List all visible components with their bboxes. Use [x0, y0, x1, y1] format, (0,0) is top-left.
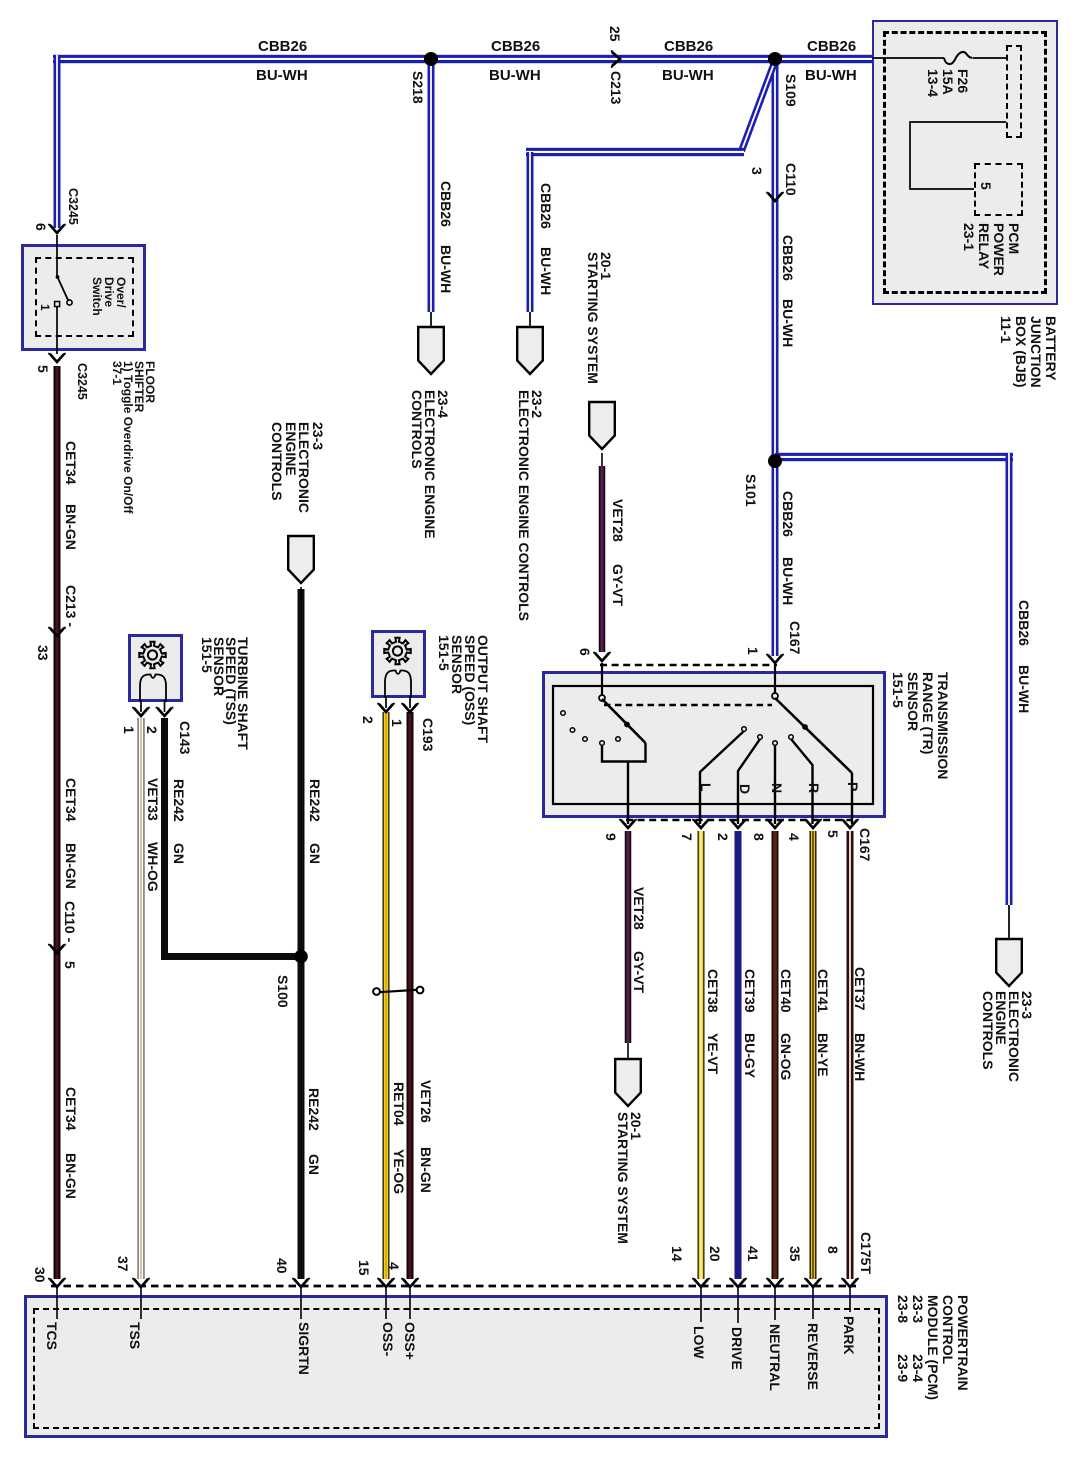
wire stub to 23-3 connector [1008, 905, 1010, 938]
TR right wiper arm [775, 698, 852, 773]
connector C175 pin at x=850 [841, 1278, 859, 1287]
label connector C167 top [787, 621, 802, 654]
label floor shifter [111, 361, 155, 513]
label GN main [307, 843, 322, 864]
label switch pin 1 [39, 304, 51, 311]
label TR pin 1 [745, 647, 760, 655]
TR lead L to pin 7 [700, 731, 744, 824]
wire BU-WH drop to overdrive switch [54, 55, 61, 228]
stub to 20-1 connector [627, 1043, 629, 1058]
wire CBB26 BU-WH right drop to 23-3 connector [1006, 453, 1013, 905]
label powertrain control module [895, 1295, 970, 1400]
label PCM pin 30 [32, 1267, 47, 1283]
TR left collector path [602, 743, 646, 762]
TR left wiper arm [602, 699, 646, 743]
label Over/Drive Switch [91, 277, 127, 316]
label YE-VT [705, 1033, 720, 1074]
label TR pin 7 [679, 833, 694, 841]
label connector C3245 top [65, 188, 80, 225]
wire BU-WH diagonal from S109 [742, 61, 776, 151]
label OSS sensor [437, 635, 489, 743]
label REVERSE [805, 1323, 820, 1390]
stub from 23-3 connector to RE242 [300, 587, 302, 600]
label CET40 [778, 969, 793, 1013]
PCM internal lead [774, 1288, 776, 1320]
connector C167 pin 8 [766, 819, 784, 828]
wire BU-WH drop to 23-2 connector [527, 152, 534, 312]
connector C175 pin at x=57 [48, 1278, 66, 1287]
connector C193 pin 2 [377, 703, 395, 712]
wire CET39 BU-GY TR pin2 to PCM pin 20 DRIVE [735, 831, 742, 1279]
connector C175 pin at x=701 [692, 1278, 710, 1287]
label TR pin 4 [786, 833, 801, 841]
PCM internal lead [140, 1288, 142, 1319]
wire switch to pin 5 [56, 306, 58, 354]
label BU-GY [742, 1033, 757, 1078]
label TR pin 8 [751, 833, 766, 841]
connector C213 inline on top bus [611, 50, 620, 68]
label pin 25 C213 [607, 26, 622, 42]
PCM internal lead [409, 1288, 411, 1319]
PCM internal lead [56, 1288, 58, 1319]
wire RET04 YE-OG OSS pin2 to PCM pin 15 [383, 712, 390, 1279]
label connector C167 bottom [857, 828, 872, 861]
wire pin 6 into switch [56, 235, 58, 276]
label TSS pin 1 [121, 726, 136, 734]
transmission range TR sensor box [542, 671, 886, 818]
connector C167 pin 4 [804, 819, 822, 828]
label contact D [737, 784, 752, 794]
label contact N [769, 783, 784, 793]
TR right wiper pivot dot [802, 724, 808, 730]
label fuse F26 15A 13-4 [925, 69, 970, 97]
label RET04 [391, 1082, 406, 1126]
connector C167 dashed line bottom of TR [626, 819, 853, 822]
label BU-WH seg2 [489, 67, 541, 84]
connector C175 pin at x=813 [804, 1278, 822, 1287]
label CBB26 seg1 [258, 38, 307, 55]
connector C175 pin at x=386 [377, 1278, 395, 1287]
label CET37 [852, 967, 867, 1011]
label RE242 lower [306, 1088, 321, 1131]
OSS gear icon [384, 638, 410, 664]
connector C213 pin 33 [48, 627, 66, 636]
connector C175 pin at x=410 [401, 1278, 419, 1287]
wire VET28 GY-VT TR pin9 to starting system [625, 831, 632, 1043]
splice S100 [294, 950, 308, 964]
wire RE242 GN horizontal to S100 [161, 953, 304, 960]
connector C110 pin 5 [48, 944, 66, 953]
PCM internal lead [300, 1288, 302, 1319]
TR arc contact 4 [600, 741, 605, 746]
label PCM pin 20 [707, 1246, 722, 1262]
off-page connector 20-1 starting system (top) [589, 402, 615, 449]
label BU-WH below S101 [780, 557, 795, 605]
label VET28 top [610, 499, 625, 542]
label BU-WH right drop [1016, 665, 1031, 713]
TSS pin 1 lead [140, 700, 142, 712]
label CET41 [815, 969, 830, 1013]
connector C143 pin 2 [156, 707, 174, 716]
wire stub to 23-2 connector [529, 312, 531, 326]
label splice S101 [743, 474, 758, 507]
wire stub to 23-4 connector [430, 312, 432, 326]
switch blade contact circle [67, 300, 72, 305]
label contact P [845, 782, 860, 791]
PCM internal lead [700, 1288, 702, 1322]
label GN tss [171, 843, 186, 864]
label connector C3245 bottom [74, 363, 89, 400]
label CET34 seg2 [63, 778, 78, 822]
PCM internal lead [737, 1288, 739, 1323]
wire CET34 BN-GN overdrive switch to PCM pin 30 [54, 366, 61, 1279]
TR arc contact 1 [561, 711, 566, 716]
wire CET37 BN-WH TR pin5 to PCM pin 8 PARK [847, 831, 854, 1279]
fuse F26 15A symbol [944, 52, 973, 64]
label TR pin 2 [715, 833, 730, 841]
label 23-3 electronic engine controls right [981, 991, 1033, 1082]
label OSS pin 1 [389, 719, 404, 727]
splice S101 [768, 454, 782, 468]
label PCM pin 14 [669, 1246, 684, 1262]
label BU-WH drop2 [538, 247, 553, 295]
label CET39 [742, 969, 757, 1013]
label SIGRTN [296, 1322, 311, 1375]
connector C193 pin 1 [401, 703, 419, 712]
switch bottom contact square [55, 302, 60, 307]
label CET34 seg1 [63, 441, 78, 485]
connector C110 pin 3 [766, 192, 784, 201]
label LOW [691, 1326, 706, 1359]
label BN-GN seg3 [63, 1153, 78, 1199]
label CET34 seg3 [63, 1087, 78, 1131]
label GY-VT lower [631, 951, 646, 993]
PCM internal lead [849, 1288, 851, 1312]
TR wiper coupling dashed line [604, 704, 772, 707]
label CBB26 right drop [1016, 600, 1031, 646]
off-page connector 23-3 electronic engine controls (left) [288, 536, 314, 583]
connector C143 pin 1 [132, 707, 150, 716]
off-page connector 20-1 starting system (bottom) [615, 1059, 641, 1106]
PCM power relay dashed box [974, 163, 1023, 216]
PCM powertrain control module box [24, 1295, 888, 1438]
wire RE242 GN to PCM SIGRTN pin 40 [298, 589, 305, 1279]
label GN-OG [778, 1033, 793, 1080]
label connector C213 [608, 71, 623, 104]
label WH-OG [145, 842, 160, 892]
label 23-4 electronic engine controls [410, 390, 449, 539]
label PCM power relay 23-1 [961, 223, 1021, 276]
label CBB26 below S101 [780, 491, 795, 537]
battery junction box BJB [872, 20, 1058, 305]
connector C175E dashed line top of PCM [51, 1285, 856, 1288]
TSS pin 2 lead [164, 700, 166, 712]
label PCM pin 35 [787, 1246, 802, 1262]
label TSS pin 2 [144, 726, 159, 734]
wire CBB26 BU-WH drop from S109 to TR pin 1 [772, 59, 779, 656]
label TCS [44, 1322, 59, 1350]
label PCM pin 4 [386, 1262, 401, 1270]
label pin 6 [33, 223, 48, 231]
label VET28 lower [631, 887, 646, 930]
label CBB26 drop1 [438, 181, 453, 227]
wire CBB26 BU-WH drop from S218 [428, 59, 435, 312]
TR pin6 contact [599, 695, 605, 701]
TR pin1 lead inside box [774, 664, 776, 694]
TR arc contact 3 [583, 737, 588, 742]
label contact R [806, 783, 821, 793]
connector C3245 pin 6 [48, 224, 66, 233]
label transmission range sensor [890, 672, 950, 779]
label TSS sensor [201, 637, 249, 750]
wire RE242 GN TSS pin2 down [161, 718, 168, 960]
label VET26 [418, 1080, 433, 1123]
off-page connector 23-2 electronic engine controls [517, 327, 543, 374]
TR lead R to pin 4 [791, 739, 813, 824]
switch blade [57, 276, 68, 300]
label pin 3 [749, 167, 764, 175]
wire fuse to bus bar [973, 57, 1006, 59]
label BN-GN oss [418, 1147, 433, 1193]
label TR pin 5 [825, 830, 840, 838]
TSS gear icon [139, 642, 165, 668]
label BU-WH seg4 [805, 67, 857, 84]
TR arc contact 2 [570, 728, 575, 733]
splice S218 [424, 52, 438, 66]
BJB bus bar dashed rect [1006, 45, 1022, 138]
label CBB26 drop2 [538, 183, 553, 229]
label GY-VT top [610, 564, 625, 606]
label PARK [841, 1316, 856, 1355]
wire from BJB edge to fuse F26 [872, 57, 944, 59]
label splice S109 [783, 74, 798, 107]
label PCM pin 40 [274, 1258, 289, 1274]
label BN-GN seg1 [63, 504, 78, 550]
wire VET28 GY-VT starting system to TR pin 6 [599, 466, 606, 652]
label connector C110 lower [62, 901, 77, 942]
TR pin1 contact [772, 693, 778, 699]
OSS pin 2 lead [385, 696, 387, 708]
TR lead P to pin 5 [851, 773, 853, 824]
label BN-WH [852, 1033, 867, 1081]
wire CET40 GN-OG TR pin8 to PCM pin 41 NEUTRAL [772, 831, 779, 1279]
wire CET41 BN-YE TR pin4 to PCM pin 35 REVERSE [810, 831, 817, 1279]
label OSS- [380, 1322, 395, 1356]
connector C167 pin 7 [692, 819, 710, 828]
OSS pickup coil symbol [385, 671, 411, 699]
label PCM pin 15 [356, 1260, 371, 1276]
label CET38 [705, 969, 720, 1013]
TR pin 9 lead [627, 762, 629, 825]
label OSS pin 2 [360, 716, 375, 724]
off-page connector 23-4 electronic engine controls [418, 327, 444, 374]
TR lead N to pin 8 [774, 745, 776, 824]
label 23-2 electronic engine controls [517, 390, 543, 621]
connector C167 pin 6 [593, 652, 611, 661]
label connector C175T [858, 1232, 873, 1274]
wire CBB26 BU-WH from S101 to right [775, 453, 1013, 461]
TR sensor inner frame [553, 686, 873, 804]
connector C167 pin 9 [619, 819, 637, 828]
label splice S100 [275, 975, 290, 1008]
label 20-1 starting system bottom [616, 1112, 642, 1244]
TR arc contact 5 [616, 737, 621, 742]
label CBB26 S109 drop [780, 235, 795, 281]
splice S109 [768, 52, 782, 66]
label PCM pin 37 [115, 1256, 130, 1272]
output shaft speed OSS sensor box [371, 630, 426, 698]
Over/Drive Switch box (floor shifter) [21, 244, 146, 351]
label VET33 [145, 778, 160, 821]
label connector C213 lower [63, 585, 78, 627]
label 23-3 electronic engine controls left [270, 422, 324, 513]
PCM internal lead [385, 1288, 387, 1319]
TR contact D [758, 735, 763, 740]
label BU-WH seg3 [662, 67, 714, 84]
twisted pair symbol [374, 990, 422, 993]
label TR pin 9 [603, 833, 618, 841]
label contact L [698, 783, 713, 792]
stub from 20-1 connector [601, 453, 603, 466]
label PCM pin 8 [825, 1246, 840, 1254]
connector C175 pin at x=738 [729, 1278, 747, 1287]
TR contact R [789, 735, 794, 740]
label RE242 tss [171, 779, 186, 822]
label pin 5 C110 [62, 961, 77, 969]
label TR pin 6 [577, 648, 592, 656]
TR contact L [742, 727, 747, 732]
label DRIVE [729, 1327, 744, 1370]
TR left wiper pivot dot [624, 722, 630, 728]
label OSS+ [402, 1322, 417, 1360]
label BN-YE [815, 1033, 830, 1077]
label CBB26 seg4 [807, 38, 856, 55]
OSS pin 1 lead [409, 696, 411, 708]
connector C167 dashed line top of TR [600, 664, 777, 667]
TSS pickup coil symbol [140, 675, 166, 703]
wire bus bar to PCM power relay pin 5 [910, 122, 1006, 189]
connector C3245 pin 5 [48, 353, 66, 362]
connector C167 pin 5 [841, 819, 859, 828]
label 20-1 starting system top [586, 252, 612, 384]
label BU-WH drop1 [438, 245, 453, 293]
PCM internal lead [812, 1288, 814, 1319]
wire VET33 WH-OG TSS pin1 to PCM pin 37 [138, 718, 145, 1279]
label connector C193 [420, 718, 435, 751]
switch blade pivot dot [56, 275, 60, 279]
wire VET26 BN-GN OSS pin1 to PCM pin 4 [407, 712, 414, 1279]
label CBB26 seg2 [491, 38, 540, 55]
label BN-GN seg2 [63, 843, 78, 889]
label connector C110 [783, 163, 798, 196]
wire CET38 YE-VT TR pin7 to PCM pin 14 LOW [698, 831, 705, 1279]
connector C167 pin 2 [729, 819, 747, 828]
label connector C143 [177, 721, 192, 754]
connector C175 pin at x=301 [292, 1278, 310, 1287]
label BU-WH S109 drop [780, 299, 795, 347]
connector C167 pin 1 [766, 654, 784, 663]
label splice S218 [410, 71, 425, 104]
label RE242 main [307, 779, 322, 822]
label battery junction box [998, 316, 1058, 388]
label pin 5 [35, 365, 50, 373]
label TSS [127, 1322, 142, 1349]
wire BU-WH horizontal to 23-2 connector [526, 148, 744, 156]
TR lead D to pin 2 [738, 739, 760, 824]
label CBB26 seg3 [664, 38, 713, 55]
turbine shaft speed TSS sensor box [128, 634, 183, 702]
label YE-OG [391, 1149, 406, 1194]
connector C175 pin at x=775 [766, 1278, 784, 1287]
label NEUTRAL [767, 1324, 782, 1391]
label relay pin 5 [978, 182, 993, 190]
connector C175 pin at x=141 [132, 1278, 150, 1287]
label PCM pin 41 [745, 1246, 760, 1262]
TR contact N [773, 741, 778, 746]
label GN lower [306, 1154, 321, 1175]
TR pin6 lead inside box [601, 663, 603, 696]
label BU-WH seg1 [256, 67, 308, 84]
wire CBB26 BU-WH top horizontal bus [53, 55, 872, 63]
label pin 33 [35, 645, 50, 661]
off-page connector 23-3 electronic engine controls (right) [996, 939, 1022, 986]
